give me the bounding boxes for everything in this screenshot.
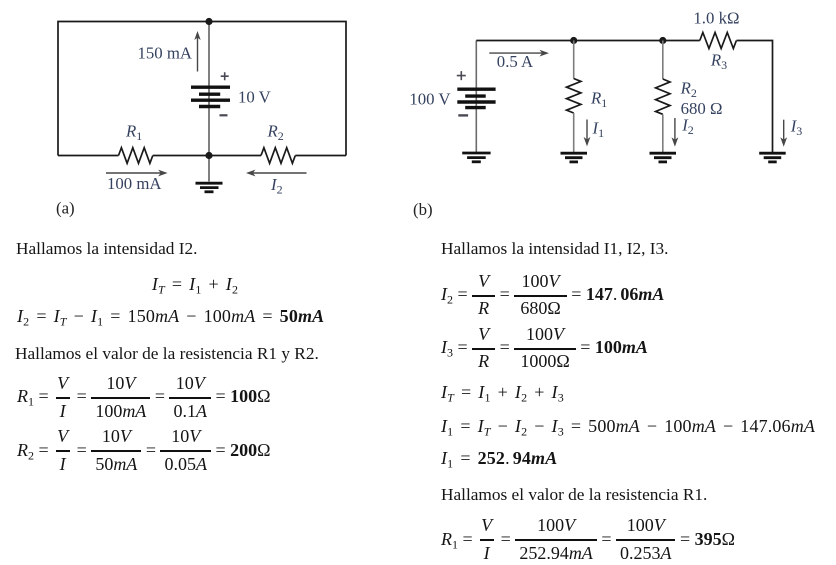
equation: I1 = 252.94mA: [441, 449, 557, 467]
wire: circuit (b) battery vertical stem: [475, 41, 477, 153]
label: resistor designator R2 (circuit b): [680, 79, 697, 101]
value label: 100 V (circuit b): [409, 89, 450, 108]
wire: circuit (a) bottom-left segment: [58, 155, 119, 157]
svg-text:I3: I3: [790, 117, 803, 139]
label: resistor designator R2 (circuit a): [267, 122, 284, 144]
arrow: 0.5 A current direction (circuit b): [489, 50, 549, 57]
wire: circuit (a) bottom-middle segment: [153, 155, 261, 157]
arrow: I2 current direction (circuit a): [246, 170, 307, 177]
value label: 10 V (circuit a): [238, 88, 271, 107]
svg-text:150 mA: 150 mA: [137, 44, 192, 63]
svg-text:1.0 kΩ: 1.0 kΩ: [693, 9, 739, 28]
wire: circuit (a) bottom-right segment: [295, 155, 346, 157]
arrow: I1 current direction (circuit b): [584, 120, 591, 147]
battery 10 V (circuit a): [191, 87, 230, 106]
equation: IT = I1 + I2 (left, centered): [152, 275, 238, 293]
wire: circuit (b) R1 branch lower: [573, 113, 575, 152]
svg-text:I1: I1: [592, 119, 605, 141]
ground symbol (circuit b, below R1): [561, 153, 588, 162]
resistor R1 (circuit b, vertical zigzag): [567, 79, 581, 114]
text: left column heading 2: [15, 345, 319, 363]
value label: 0.5 A (circuit b): [497, 52, 533, 71]
svg-text:(b): (b): [413, 200, 433, 219]
svg-text:100 mA: 100 mA: [107, 174, 162, 193]
equation: I3 = V/R = 100V/1000ohm = 100mA: [441, 324, 648, 374]
equation: R1 = V/I = 10V/100mA = 10V/0.1A = 100 ohm: [17, 373, 271, 423]
label: current I2 (circuit a): [270, 175, 283, 197]
label: battery minus sign (circuit b): [458, 114, 468, 116]
svg-text:R1: R1: [590, 89, 607, 111]
wire: circuit (b) top horizontal (battery to R3): [476, 40, 700, 42]
label: battery plus sign (circuit a): [221, 72, 229, 80]
resistor R1 (circuit a, horizontal zigzag): [119, 148, 153, 164]
label: current I2 (circuit b): [681, 116, 694, 138]
node: circuit (a) top junction: [205, 18, 212, 25]
equation: I1 = IT - I2 - I3 = 500mA - 100mA - 147.06mA: [441, 417, 815, 435]
equation: R2 = V/I = 10V/50mA = 10V/0.05A = 200 ohm: [17, 426, 271, 476]
label: resistor designator R1 (circuit a): [125, 122, 142, 144]
wire: circuit (b) R2 branch lower: [662, 115, 664, 153]
value label: 100 mA (circuit a): [107, 174, 162, 193]
label: figure tag (b): [413, 200, 433, 219]
equation: IT = I1 + I2 + I3: [441, 383, 564, 401]
node: circuit (a) bottom junction: [205, 152, 212, 159]
ground symbol (circuit a, below battery): [196, 183, 223, 192]
svg-text:(a): (a): [56, 199, 75, 218]
wire: circuit (b) R1 branch upper: [573, 41, 575, 79]
label: battery plus sign (circuit b): [457, 71, 466, 80]
node: circuit (b) junction at R1: [570, 37, 577, 44]
value label: 1.0 kOhm (circuit b): [693, 9, 739, 28]
battery 100 V (circuit b): [457, 89, 495, 107]
svg-text:I2: I2: [270, 175, 283, 197]
label: resistor designator R3 (circuit b): [710, 51, 727, 73]
svg-text:R2: R2: [267, 122, 284, 144]
svg-text:I2: I2: [681, 116, 694, 138]
label: current I1 (circuit b): [592, 119, 605, 141]
resistor R2 (circuit a, horizontal zigzag): [261, 148, 295, 164]
text: left column heading 1: [16, 240, 197, 258]
arrow: 150 mA current direction (circuit a): [194, 31, 200, 72]
wire: circuit (a) outer loop (top, left, right sides): [58, 22, 346, 156]
svg-text:R2: R2: [680, 79, 697, 101]
svg-text:0.5 A: 0.5 A: [497, 52, 533, 71]
wire: circuit (a) center vertical branch: [208, 22, 210, 182]
value label: 680 ohms (circuit b): [681, 99, 723, 118]
ground symbol (circuit b, below battery): [462, 153, 490, 162]
equation: R1 = V/I = 100V/252.94mA = 100V/0.253A = 395 ohm: [441, 515, 735, 565]
arrow: I3 current direction (circuit b): [780, 120, 787, 147]
wire: circuit (b) R2 branch upper: [662, 41, 664, 80]
arrow: 100 mA current direction (circuit a): [106, 170, 168, 177]
text: right column heading 2: [441, 486, 707, 504]
wire: circuit (b) right vertical branch: [737, 41, 773, 153]
node: circuit (b) junction at R2: [659, 37, 666, 44]
resistor R3 (circuit b, horizontal zigzag): [700, 33, 737, 49]
svg-text:10 V: 10 V: [238, 88, 271, 107]
label: battery minus sign (circuit a): [220, 114, 228, 116]
arrow: I2 current direction (circuit b): [672, 118, 679, 147]
equation: I2 = V/R = 100V/680ohm = 147.06mA: [441, 271, 664, 321]
svg-text:R3: R3: [710, 51, 727, 73]
value label: 150 mA (circuit a): [137, 44, 192, 63]
text: right column heading 1: [441, 240, 668, 258]
equation: I2 = IT - I1 = 150mA - 100mA = 50mA: [17, 307, 324, 325]
ground symbol (circuit b, below R2): [650, 153, 677, 162]
svg-text:100 V: 100 V: [409, 89, 450, 108]
label: current I3 (circuit b): [790, 117, 803, 139]
svg-text:R1: R1: [125, 122, 142, 144]
label: figure tag (a): [56, 199, 75, 218]
resistor R2 (circuit b, vertical zigzag): [656, 79, 670, 114]
label: resistor designator R1 (circuit b): [590, 89, 607, 111]
ground symbol (circuit b, below right branch): [759, 153, 786, 162]
